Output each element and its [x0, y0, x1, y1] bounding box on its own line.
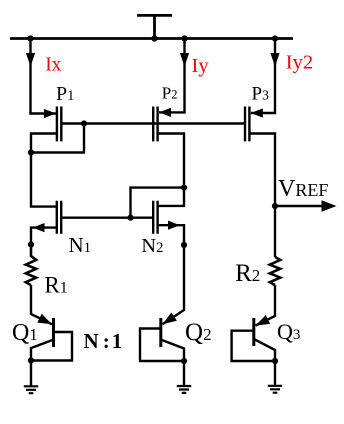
node VREF — [272, 203, 278, 209]
wire Q1 emitter node to ground — [30, 361, 32, 387]
wire VDD rail — [10, 37, 293, 40]
wire P1 lower lead to node B — [31, 134, 57, 153]
transistor P1 — [57, 107, 61, 142]
arrowhead into P2 — [159, 108, 171, 117]
wire Q3 emitter node to ground — [274, 361, 276, 386]
ground under Q1 — [24, 386, 38, 393]
svg-text:Q1: Q1 — [12, 320, 38, 346]
wire N2 drain lead — [158, 188, 184, 206]
svg-text:R2: R2 — [235, 260, 260, 287]
wire Q1 collector loop — [31, 332, 72, 361]
node N1/N2 gates — [127, 215, 133, 221]
svg-text:Q3: Q3 — [277, 319, 300, 344]
wire N2 source node down to Q2 base with arrow — [163, 245, 185, 324]
transistor N2 — [153, 201, 157, 234]
transistor P3 — [245, 107, 249, 142]
svg-text:N:1: N:1 — [84, 329, 123, 353]
arrowhead into P1 — [44, 109, 56, 118]
transistor N1 — [57, 201, 61, 234]
svg-text:Ix: Ix — [45, 55, 61, 76]
svg-text:N1: N1 — [69, 233, 92, 257]
junction node on rail at Ix — [27, 35, 33, 41]
wire loop node A down to node B — [31, 124, 84, 153]
wire Iy branch from rail to P2 — [159, 39, 185, 113]
wire N1 source lead down — [31, 228, 57, 245]
junction node on rail at Iy — [181, 35, 187, 41]
transistor Q1 base bar — [52, 318, 55, 347]
node above R1 — [28, 241, 34, 247]
ground under Q3 — [268, 386, 282, 393]
wire Q2 emitter node to ground — [183, 361, 185, 386]
node B — [28, 149, 34, 155]
svg-text:R1: R1 — [44, 273, 67, 298]
wire R2 to Q3 base with arrow — [256, 285, 276, 326]
wire VREF node down to R2 — [274, 206, 276, 257]
svg-text:Iy2: Iy2 — [286, 52, 313, 74]
svg-text:P2: P2 — [162, 83, 178, 102]
wire Q1 emitter — [31, 340, 54, 361]
resistor R1 — [26, 245, 36, 286]
arrowhead VREF output — [322, 200, 337, 211]
transistor Q3 base bar — [252, 318, 255, 346]
wire Q2 collector loop — [140, 329, 184, 362]
resistor R2 — [270, 257, 280, 285]
ground under Q2 — [177, 386, 191, 393]
node P2 source junction — [181, 185, 187, 191]
wire N1 gate to N2 gate — [61, 216, 153, 218]
wire VREF output arrow — [275, 205, 322, 207]
svg-text:P1: P1 — [56, 83, 74, 105]
wire R1 to Q1 base with arrow — [31, 285, 52, 324]
node Q1 emitter-collector — [28, 357, 34, 363]
wire common gate line P1-P2-P3 — [61, 122, 245, 124]
transistor Q2 base bar — [159, 318, 162, 347]
wire node B down to N1 drain lead — [31, 153, 57, 207]
svg-text:VREF: VREF — [278, 176, 328, 202]
wire Iy2 branch from rail to P3 — [251, 39, 275, 114]
node A on gate line — [81, 120, 87, 126]
svg-text:Iy: Iy — [192, 55, 210, 77]
VDD supply symbol — [137, 15, 172, 38]
junction node on rail at Iy2 — [272, 35, 278, 41]
svg-text:N2: N2 — [141, 235, 163, 257]
arrowhead Ix down — [26, 53, 35, 67]
wire Q3 emitter — [254, 339, 275, 361]
wire P3 lower lead down to VREF node — [249, 134, 275, 207]
arrowhead N1 source — [33, 223, 45, 232]
wire gate node up and over to P2 source node — [131, 188, 185, 218]
node above Q2 — [181, 242, 187, 248]
junction node on rail at VDD stem — [151, 35, 157, 41]
transistor P2 — [153, 107, 157, 142]
node Q3 emitter-collector — [272, 358, 278, 364]
arrowhead Iy down — [180, 53, 189, 67]
wire N2 source lead down — [158, 225, 184, 245]
wire P2 lower lead down to node — [158, 134, 184, 188]
node Q2 emitter-collector — [181, 358, 187, 364]
svg-text:Q2: Q2 — [185, 319, 212, 346]
wire Q2 emitter — [161, 340, 184, 361]
wire Q3 collector loop — [232, 331, 275, 361]
wire Ix branch from rail to P1 gate-side lead — [31, 39, 56, 114]
arrowhead into P3 — [251, 108, 263, 117]
arrowhead Iy2 down — [270, 53, 279, 67]
arrowhead N2 source — [168, 221, 180, 230]
svg-text:P3: P3 — [252, 83, 270, 104]
